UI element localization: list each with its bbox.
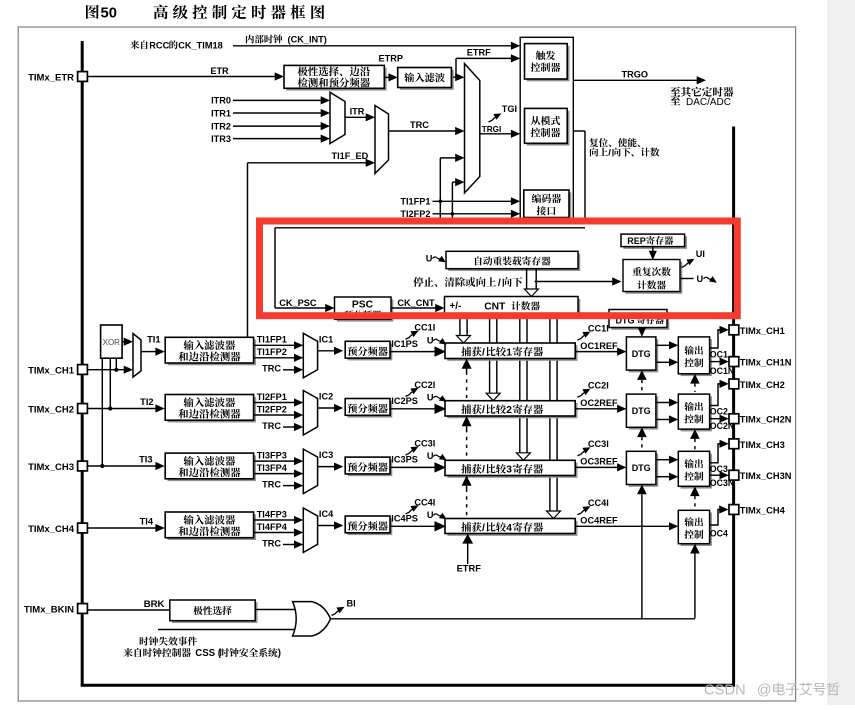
svg-text:CC4I: CC4I: [588, 498, 609, 508]
box 触发控制器: [527, 46, 570, 81]
wire ETRF dashed seg2: [462, 416, 472, 426]
box XOR: [101, 325, 123, 358]
text 输入滤波器 ch2: [183, 397, 193, 407]
svg-text:IC3PS: IC3PS: [391, 455, 418, 465]
wire OC col seg3: [690, 486, 700, 496]
wire OC2N out: [710, 418, 721, 420]
svg-text:IC1PS: IC1PS: [391, 339, 418, 349]
wire XOR stub2: [109, 358, 111, 408]
label 停止、清除或向上/向下: [413, 277, 423, 287]
svg-text:CC1I: CC1I: [414, 323, 435, 333]
svg-text:+/-: +/-: [450, 301, 462, 312]
svg-text:1: 1: [506, 347, 512, 358]
svg-text:/: /: [482, 465, 485, 476]
wire CSS line: [158, 629, 298, 631]
wire ITR3: [233, 138, 322, 140]
svg-text:CSDN: CSDN: [704, 682, 746, 698]
svg-text:TIMx_CH4: TIMx_CH4: [740, 506, 786, 516]
wire DTG col seg1: [637, 370, 647, 380]
svg-text:TIMx_ETR: TIMx_ETR: [28, 72, 74, 83]
wire TRC ch3: [283, 485, 296, 487]
text 和边沿检测器 ch4: [178, 526, 188, 536]
wire TI3FP4: [254, 473, 296, 475]
mux IC4 select: [303, 508, 317, 553]
text 编码器: [532, 194, 541, 203]
svg-text:IC2PS: IC2PS: [391, 396, 418, 406]
wire TI1FP1 to mux: [439, 158, 441, 201]
text 输出 ch4: [684, 517, 693, 526]
svg-text:TIMx_CH2: TIMx_CH2: [28, 404, 74, 415]
svg-text:DTG: DTG: [632, 349, 651, 359]
interrupt CC4I right: [578, 510, 585, 515]
svg-text:U: U: [697, 274, 704, 284]
svg-text:TIMx_CH2: TIMx_CH2: [740, 380, 785, 390]
wire OC4 out: [710, 510, 721, 526]
wire IC1PS: [390, 351, 436, 353]
pad TIMx_CH1N right: [729, 357, 739, 367]
wire DTG col seg3: [637, 485, 647, 495]
svg-text:TRC: TRC: [262, 538, 281, 548]
wire ETRF to capture4: [467, 541, 469, 564]
svg-text:TI2: TI2: [140, 397, 153, 407]
left bus wire: [81, 41, 84, 686]
svg-text:TI3FP3: TI3FP3: [257, 451, 287, 461]
mux ITR select: [330, 92, 345, 143]
interrupt CC2I right: [578, 392, 585, 397]
svg-text:/: /: [482, 405, 485, 416]
wire TI1: [141, 351, 157, 353]
wire OC2 out: [710, 384, 721, 406]
svg-text:TI1FP1: TI1FP1: [257, 335, 287, 345]
right bus wire: [732, 127, 735, 687]
wire OC col seg4: [690, 544, 700, 554]
svg-text:ITR: ITR: [350, 107, 365, 117]
box output control ch3: [681, 454, 712, 489]
svg-text:TIMx_CH3: TIMx_CH3: [740, 440, 785, 450]
text 计数器3: [637, 280, 646, 289]
label 至DAC/ADC: [670, 96, 680, 105]
label 来自RCC的CK_TIM18: [130, 40, 139, 49]
text 接口: [537, 206, 547, 215]
text PSC 预分频器: [344, 310, 353, 319]
svg-text:TI3FP4: TI3FP4: [257, 463, 288, 473]
pad TIMx_CH3 right: [729, 439, 739, 449]
box 输入滤波: [400, 70, 454, 90]
text 控制 ch2: [684, 414, 693, 423]
pad TIMx_CH3: [78, 461, 88, 471]
wire DTG3 to OC b: [656, 476, 671, 478]
svg-text:REP: REP: [627, 236, 646, 246]
svg-text:TI4FP4: TI4FP4: [257, 522, 288, 532]
svg-text:TIMx_CH3N: TIMx_CH3N: [740, 471, 792, 481]
box prescaler ch4: [348, 518, 393, 535]
box DTG ch1: [629, 339, 659, 372]
wire OC1REF: [575, 351, 618, 353]
svg-text:TRC: TRC: [262, 364, 281, 374]
svg-text:OC2REF: OC2REF: [580, 398, 618, 408]
svg-text:TIMx_BKIN: TIMx_BKIN: [24, 604, 74, 615]
svg-text:TIMx_CH3: TIMx_CH3: [28, 462, 74, 473]
box input filter/edge detector ch2: [168, 397, 256, 423]
text 控制器: [531, 63, 541, 72]
svg-text:OC1REF: OC1REF: [580, 341, 618, 351]
svg-text:OC2: OC2: [710, 407, 728, 417]
wire ITR2: [233, 125, 322, 127]
svg-text:IC4PS: IC4PS: [391, 514, 418, 524]
box REP register: [623, 236, 687, 249]
svg-text:TI1FP1: TI1FP1: [400, 197, 430, 207]
box output control ch1: [681, 339, 712, 376]
svg-text:TI2FP2: TI2FP2: [257, 404, 287, 414]
text 捕获比较1寄存器: [461, 347, 471, 357]
svg-text:3: 3: [506, 465, 512, 476]
svg-text:TRC: TRC: [410, 120, 429, 130]
svg-text:TIMx_CH2N: TIMx_CH2N: [740, 415, 792, 425]
interrupt CC3I right: [578, 451, 585, 456]
wire IC3PS: [390, 466, 436, 468]
svg-text:OC3: OC3: [710, 464, 728, 474]
interrupt CC1I left: [406, 334, 413, 339]
svg-text:ETR: ETR: [210, 66, 229, 76]
wire polarity to filter: [384, 76, 389, 78]
svg-text:OC1: OC1: [710, 349, 728, 359]
box capture/compare 2 register: [447, 403, 577, 418]
svg-text:CC2I: CC2I: [588, 381, 609, 391]
svg-text:OC3REF: OC3REF: [580, 457, 618, 467]
pad TIMx_CH2N right: [729, 414, 739, 424]
svg-text:UI: UI: [696, 249, 705, 259]
wire XOR stub1: [115, 358, 117, 370]
wire CNT to capture1 compare: [459, 316, 461, 336]
wire TRC ch2: [283, 426, 296, 428]
box polarity/edge-detector/prescaler: [286, 68, 386, 91]
text 输入滤波器 ch4: [183, 515, 193, 525]
svg-text:TRGO: TRGO: [622, 70, 649, 80]
red highlight rectangle: [260, 221, 738, 316]
wire to repeat counter: [535, 281, 614, 283]
box prescaler ch2: [348, 401, 393, 418]
pad TIMx_CH4: [78, 523, 88, 533]
wire IC3: [318, 466, 336, 468]
svg-text:CC3I: CC3I: [588, 439, 609, 449]
svg-text:DAC/ADC: DAC/ADC: [686, 97, 731, 108]
svg-text:U: U: [427, 510, 434, 520]
wire CNT to capture2 compare: [489, 316, 491, 393]
text 控制 ch4: [684, 530, 693, 539]
interrupt TGI: [489, 117, 496, 122]
wire BKIN: [88, 609, 170, 611]
interrupt UI: [682, 263, 689, 268]
wire DTG2 to OC b: [656, 419, 671, 421]
svg-text:50: 50: [101, 6, 117, 22]
wire to OR gate: [255, 609, 296, 611]
box auto-reload register: [448, 254, 580, 271]
wire DTG3 to OC a: [656, 459, 671, 461]
svg-text:XOR: XOR: [103, 338, 121, 347]
wire REP to repeat counter: [652, 247, 654, 254]
svg-text:ETRP: ETRP: [379, 53, 404, 63]
box 从模式控制器: [527, 111, 570, 146]
interrupt BI: [332, 611, 339, 616]
svg-text:U: U: [427, 393, 434, 403]
svg-text:ITR0: ITR0: [211, 96, 231, 106]
text 预分频器 ch2: [348, 404, 357, 414]
text 输出 ch3: [684, 459, 693, 468]
text 输入滤波器 ch1: [183, 340, 193, 350]
interrupt CC3I left: [406, 450, 413, 455]
text 和边沿检测器 ch1: [178, 352, 188, 362]
wire IC4: [318, 525, 336, 527]
mux trigger select: [465, 64, 480, 193]
wire OC col seg2: [690, 429, 700, 439]
pad TIMx_ETR: [78, 72, 88, 82]
pad TIMx_CH2: [78, 404, 88, 414]
interrupt CC1I right: [578, 335, 585, 340]
svg-text:ITR2: ITR2: [211, 121, 231, 131]
svg-text:RCC: RCC: [149, 40, 169, 50]
wire OC3REF: [575, 466, 618, 468]
svg-text:DTG: DTG: [632, 406, 651, 416]
svg-text:TGI: TGI: [502, 104, 517, 114]
text 和边沿检测器 ch3: [178, 467, 188, 477]
wire TI2FP2 hidden drop: [451, 214, 453, 219]
wire TRGO: [573, 79, 698, 81]
svg-text:OC1N: OC1N: [710, 366, 734, 376]
svg-text:CNT: CNT: [484, 302, 506, 313]
svg-text:TRC: TRC: [262, 421, 281, 431]
svg-text:TRC: TRC: [262, 479, 281, 489]
wire TI1F_ED: [248, 162, 368, 164]
wire ETRF branch: [455, 58, 457, 77]
wire TI4FP4: [254, 532, 296, 534]
svg-text:CK_PSC: CK_PSC: [279, 298, 317, 308]
svg-text:U: U: [427, 451, 434, 461]
box input filter/edge detector ch3: [168, 455, 256, 481]
wire TI1FP1 hidden drop: [439, 201, 441, 219]
wire OC4REF: [575, 525, 670, 527]
svg-text:/: /: [608, 148, 611, 159]
text 控制器2: [531, 128, 541, 137]
wire TI3FP3: [254, 460, 296, 462]
svg-text:2: 2: [506, 405, 512, 416]
text 预分频器 ch1: [348, 346, 357, 356]
label 复位、使能、: [589, 138, 598, 147]
text 极性选择、边沿: [298, 66, 308, 76]
wire OC1 out: [710, 330, 721, 348]
wire ITR to mux2: [345, 116, 368, 118]
svg-text:/: /: [482, 347, 485, 358]
svg-text:TI4: TI4: [140, 517, 154, 527]
svg-text:(CK_INT): (CK_INT): [285, 35, 327, 45]
svg-text:TI1F_ED: TI1F_ED: [332, 151, 369, 161]
box CNT counter: [447, 299, 581, 318]
box trigger group: [520, 37, 573, 222]
label 至其它定时器: [670, 87, 680, 96]
text 控制 ch3: [684, 472, 693, 481]
text 预分频器 ch4: [348, 521, 357, 531]
svg-text:TI1: TI1: [147, 335, 160, 345]
svg-text:OC4: OC4: [710, 529, 728, 539]
svg-text:@: @: [757, 682, 772, 698]
svg-text:/: /: [482, 523, 485, 534]
box prescaler ch1: [348, 344, 393, 361]
text 检测和预分频器: [298, 78, 308, 88]
wire IC1: [318, 350, 336, 352]
svg-text:TIMx_CH4: TIMx_CH4: [28, 524, 75, 535]
svg-text:TI4FP3: TI4FP3: [257, 509, 287, 519]
text 输出 ch1: [684, 346, 693, 355]
wire TRGI out: [480, 133, 513, 135]
svg-text:TIMx_CH1: TIMx_CH1: [740, 326, 785, 336]
figure title 图50: [86, 5, 99, 19]
svg-text:TRGI: TRGI: [482, 125, 502, 134]
wire CH1 in: [88, 369, 126, 371]
text 和边沿检测器 ch2: [178, 409, 188, 419]
wire TRC: [389, 130, 458, 132]
wire ETRF dashed seg3: [462, 476, 472, 486]
text 预分频器 ch3: [348, 462, 357, 472]
svg-text:DTG: DTG: [632, 463, 651, 473]
box repeat counter: [625, 262, 682, 294]
box input filter/edge detector ch4: [168, 514, 256, 540]
mux IC2 select: [303, 391, 317, 436]
wire CH3 in: [88, 465, 157, 467]
mux TI1 select: [133, 334, 141, 378]
svg-text:PSC: PSC: [352, 300, 374, 311]
wire OC col seg1: [690, 374, 700, 384]
wire TI2FP2 to mux: [451, 182, 453, 214]
box capture/compare 3 register: [447, 463, 577, 478]
svg-text:CC3I: CC3I: [414, 438, 435, 448]
svg-text:TI3: TI3: [139, 455, 152, 465]
wire TI1FP1: [433, 200, 514, 202]
wire ITR0: [233, 99, 322, 101]
pad TIMx_CH3N right: [729, 470, 739, 480]
svg-text:/: /: [498, 278, 501, 289]
box DTG ch3: [629, 454, 659, 487]
wire TI4FP3: [254, 519, 296, 521]
wire DTGreg to DTG1: [641, 328, 643, 331]
wire CK_PSC: [275, 307, 327, 309]
pad TIMx_CH1 right: [729, 325, 739, 335]
svg-text:OC4REF: OC4REF: [580, 516, 618, 526]
svg-text:IC1: IC1: [319, 334, 333, 344]
wire TI1FP1: [254, 344, 296, 346]
svg-text:ITR3: ITR3: [211, 134, 231, 144]
mux IC1 select: [303, 333, 317, 378]
wire IC2PS: [390, 408, 436, 410]
mux TRC select: [375, 106, 389, 174]
wire CH4 in: [88, 527, 157, 529]
wire TI2FP2: [433, 213, 514, 215]
wire CNT to capture4 compare: [549, 316, 551, 511]
box capture/compare 4 register: [447, 521, 577, 536]
wire CK_CNT: [391, 307, 437, 309]
gate OR break: [293, 602, 331, 636]
wire DTG col seg2: [637, 427, 647, 437]
box DTG ch2: [629, 396, 659, 429]
svg-text:ETRF: ETRF: [457, 564, 482, 574]
wire DTG1 to OC a: [656, 344, 671, 346]
svg-text:ETRF: ETRF: [467, 48, 491, 58]
text 输入滤波器 ch3: [183, 456, 193, 466]
mux IC3 select: [303, 449, 317, 494]
svg-text:CK_TIM18: CK_TIM18: [178, 40, 222, 50]
box 编码器接口: [526, 192, 571, 220]
wire TRC ch4: [283, 544, 296, 546]
right gray band: [827, 0, 855, 705]
svg-text:CC2I: CC2I: [414, 380, 435, 390]
wire slave ctrl out: [573, 130, 585, 132]
wire ETRF dashed seg1: [462, 359, 472, 369]
wire TRC ch1: [283, 369, 296, 371]
wire OC2REF: [575, 408, 618, 410]
box output control ch4: [681, 513, 712, 546]
wire ARR to CNT UEV: [526, 269, 528, 289]
svg-text:IC3: IC3: [319, 450, 333, 460]
svg-text:IC2: IC2: [319, 392, 333, 402]
wire IC2: [318, 407, 336, 409]
text 重复次数: [632, 267, 641, 276]
svg-text:U: U: [426, 254, 433, 264]
interrupt CC2I left: [406, 392, 413, 397]
box input filter/edge detector ch1: [168, 340, 256, 366]
svg-text:TIMx_CH1: TIMx_CH1: [28, 365, 75, 376]
wire IC4PS: [390, 525, 436, 527]
text 捕获比较3寄存器: [461, 464, 471, 474]
text 输入滤波: [404, 73, 414, 83]
wire CNT to capture3 compare: [519, 316, 521, 453]
text 捕获比较2寄存器: [461, 404, 471, 414]
interrupt CC4I left: [406, 509, 413, 514]
svg-text:): ): [278, 648, 281, 659]
wire TI2FP1: [254, 402, 296, 404]
text 极性选择: [193, 606, 202, 615]
wire CH2 in: [88, 408, 157, 410]
box capture/compare 1 register: [447, 345, 577, 361]
svg-text:BRK: BRK: [144, 599, 165, 610]
svg-text:U: U: [427, 335, 434, 345]
svg-text:CSS (: CSS (: [193, 648, 222, 659]
wire ITR1: [233, 112, 322, 114]
wire TI2FP2: [254, 414, 296, 416]
box PSC prescaler: [337, 299, 394, 321]
text 自动重装载寄存器: [475, 256, 482, 265]
box output control ch2: [681, 396, 712, 431]
svg-text:4: 4: [506, 523, 512, 534]
label 来自时钟控制器CSS: [123, 648, 132, 657]
svg-text:CC4I: CC4I: [414, 497, 435, 507]
wire TI1FP2: [254, 357, 296, 359]
wire XOR out: [122, 341, 125, 343]
svg-text:CK_CNT: CK_CNT: [397, 298, 435, 308]
wire filter out: [453, 76, 458, 78]
wire U out: [680, 278, 694, 280]
wire DTG2 to OC a: [656, 402, 671, 404]
svg-text:BI: BI: [347, 599, 356, 609]
wire OC1N out: [710, 361, 721, 363]
text 触发: [536, 51, 545, 60]
wire XOR stub3: [101, 358, 103, 466]
text 从模式: [531, 116, 541, 125]
svg-text:IC4: IC4: [319, 509, 334, 519]
label 时钟失效事件: [140, 637, 149, 646]
svg-text:TI2FP1: TI2FP1: [257, 392, 287, 402]
wire OC3 out: [710, 444, 721, 463]
text 捕获比较4寄存器: [461, 522, 471, 532]
pad TIMx_CH2 right: [729, 379, 739, 389]
box prescaler ch3: [348, 459, 393, 476]
